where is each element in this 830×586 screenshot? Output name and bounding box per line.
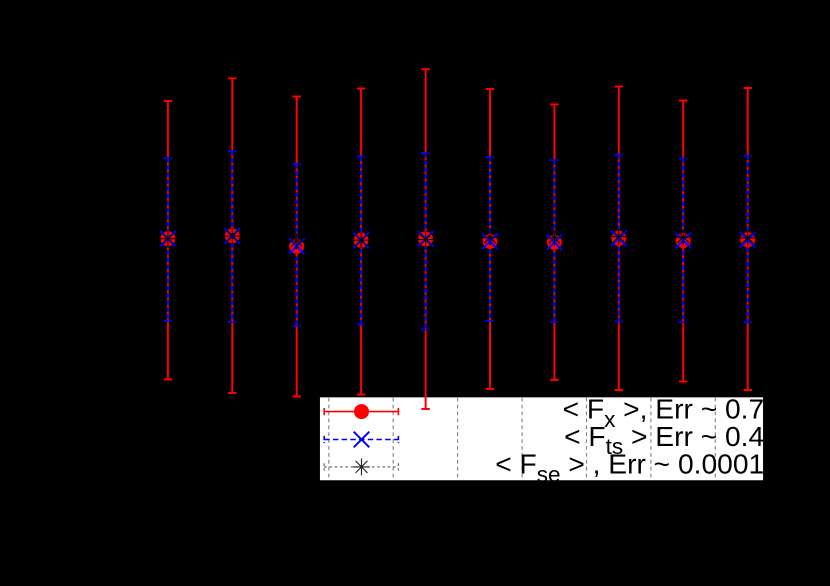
data column 6 : blue F_ts dashed error bar — [486, 157, 494, 321]
data column 2 : blue F_ts dashed error bar — [228, 151, 236, 322]
data column 3 : blue F_ts dashed error bar — [293, 164, 301, 326]
data column 10 : red F_X error bar — [744, 88, 752, 390]
data column 4 : blue X marker — [353, 233, 369, 249]
data column 4 : blue F_ts dashed error bar — [357, 157, 365, 325]
legend sample row 2 : blue dashed errorbar with X — [324, 436, 398, 443]
x-grid lines (visible over legend box) — [329, 398, 716, 480]
data column 10 : blue F_ts dashed error bar — [744, 156, 752, 323]
data column 3 : black asterisk marker — [289, 233, 305, 249]
data column 5 : red F_X error bar — [421, 69, 429, 409]
data column 3 : red circle marker — [289, 239, 304, 254]
data column 8 : blue F_ts dashed error bar — [615, 155, 623, 322]
data column 6 : black asterisk marker — [482, 229, 498, 245]
data column 4 : red F_X error bar — [357, 89, 365, 395]
data column 3 : red F_X error bar — [293, 97, 301, 397]
data column 8 : red F_X error bar — [615, 87, 623, 391]
data column 3 : blue X marker — [289, 239, 305, 255]
data column 5 : black asterisk marker — [418, 232, 434, 248]
data column 1 : red F_X error bar — [164, 101, 172, 380]
data column 4 : black asterisk marker — [353, 232, 369, 248]
data column 7 : black asterisk marker — [546, 230, 562, 246]
data column 5 : blue F_ts dashed error bar — [421, 153, 429, 330]
legend sample row 3 : gray dotted errorbar with asterisk — [324, 463, 398, 470]
data column 8 : black asterisk marker — [611, 229, 627, 245]
data column 2 : red F_X error bar — [228, 78, 236, 393]
data column 8 : red circle marker — [611, 231, 626, 246]
data column 1 : black asterisk marker — [160, 231, 176, 247]
data column 9 : blue X marker — [675, 233, 691, 249]
legend sample row 1 : red errorbar with circle — [324, 408, 398, 415]
data column 2 : blue X marker — [225, 228, 241, 244]
data column 6 : red circle marker — [483, 234, 498, 249]
data column 10 : blue X marker — [740, 232, 756, 248]
data column 9 : red F_X error bar — [679, 101, 687, 382]
data column 2 : red circle marker — [225, 228, 240, 243]
data column 2 : black asterisk marker — [224, 228, 240, 244]
data column 10 : black asterisk marker — [740, 230, 756, 246]
data column 1 : blue F_ts dashed error bar — [164, 158, 172, 321]
data column 10 : red circle marker — [740, 232, 755, 247]
data column 9 : red circle marker — [676, 233, 691, 248]
data column 7 : red circle marker — [547, 235, 562, 250]
data column 5 : red circle marker — [418, 231, 433, 246]
data column 1 : red circle marker — [160, 231, 175, 246]
data column 7 : blue F_ts dashed error bar — [550, 160, 558, 322]
data column 7 : red F_X error bar — [550, 104, 558, 380]
data column 1 : blue X marker — [160, 231, 176, 247]
data column 4 : red circle marker — [354, 233, 369, 248]
data column 9 : black asterisk marker — [675, 229, 691, 245]
data column 5 : blue X marker — [418, 231, 434, 247]
data column 7 : blue X marker — [547, 235, 563, 251]
data column 6 : red F_X error bar — [486, 89, 494, 389]
legend box — [319, 397, 764, 481]
data column 9 : blue F_ts dashed error bar — [679, 159, 687, 323]
data column 8 : blue X marker — [611, 231, 627, 247]
data column 6 : blue X marker — [482, 234, 498, 250]
